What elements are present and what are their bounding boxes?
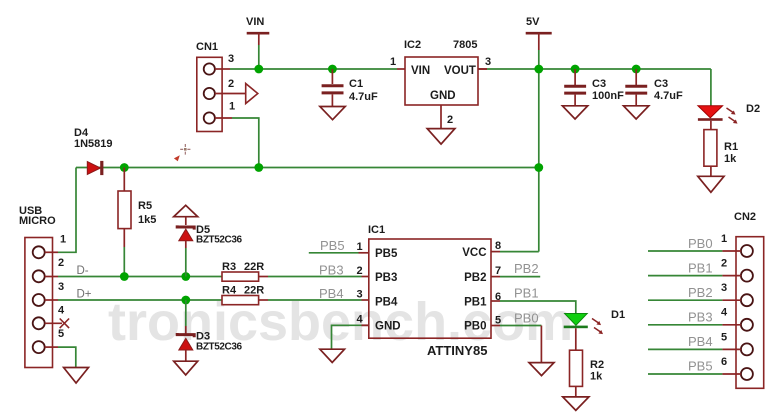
svg-text:1: 1 bbox=[229, 101, 235, 113]
svg-text:PB5: PB5 bbox=[688, 359, 713, 374]
svg-text:PB4: PB4 bbox=[319, 286, 344, 301]
IC1 pin 8 stub VCC bbox=[491, 240, 501, 252]
svg-text:3: 3 bbox=[721, 282, 727, 294]
svg-text:D+: D+ bbox=[77, 289, 92, 301]
node junction D5 on D- bbox=[181, 272, 190, 281]
LED D1 green bbox=[564, 309, 625, 334]
svg-text:5: 5 bbox=[721, 332, 727, 344]
wire PB0 drop to ground bbox=[540, 326, 542, 363]
svg-text:1k5: 1k5 bbox=[138, 214, 156, 226]
wire PB0 net bbox=[500, 325, 541, 327]
svg-text:C3: C3 bbox=[654, 78, 668, 90]
wire PB5 net to IC1 pin1 bbox=[309, 252, 359, 254]
wire CN2 pin3 net PB2 bbox=[648, 299, 741, 301]
svg-text:4.7uF: 4.7uF bbox=[349, 91, 378, 103]
wire CN2 pin2 net PB1 bbox=[648, 275, 741, 277]
svg-text:7805: 7805 bbox=[453, 39, 477, 51]
wire CN2 pin4 net PB3 bbox=[648, 324, 741, 326]
svg-text:PB4: PB4 bbox=[375, 297, 398, 309]
supply symbol VIN bbox=[246, 16, 269, 45]
ground below R2 bbox=[563, 397, 589, 411]
svg-text:3: 3 bbox=[58, 281, 64, 293]
svg-text:PB1: PB1 bbox=[514, 286, 539, 301]
wire USB pin1 VBUS riser bbox=[45, 168, 76, 253]
node junction D4 to R5 bbox=[120, 163, 129, 172]
svg-text:D-: D- bbox=[77, 265, 89, 277]
svg-text:1k: 1k bbox=[724, 153, 737, 165]
connector CN1 bbox=[196, 41, 235, 132]
svg-text:VCC: VCC bbox=[462, 247, 486, 259]
wire R4 to IC1 PB4 bbox=[268, 299, 362, 301]
wire CN2 pin6 net PB5 bbox=[648, 373, 741, 375]
svg-text:MICRO: MICRO bbox=[19, 215, 56, 227]
ground below R1 bbox=[698, 176, 724, 192]
svg-text:PB5: PB5 bbox=[320, 238, 345, 253]
ground below C1 bbox=[320, 107, 345, 120]
svg-text:1: 1 bbox=[390, 56, 396, 68]
IC1 pin 7 stub bbox=[491, 265, 501, 277]
resistor R4 22R bbox=[222, 285, 268, 305]
IC1 pin 5 stub bbox=[491, 315, 501, 327]
wire IC1 GND to ground bbox=[332, 325, 369, 349]
svg-text:1k: 1k bbox=[590, 371, 603, 383]
ground above D5 (pointing up) bbox=[174, 205, 198, 216]
svg-text:6: 6 bbox=[721, 356, 727, 368]
svg-text:VIN: VIN bbox=[411, 65, 430, 77]
wire VCC to 5V rail bbox=[500, 251, 539, 253]
svg-text:C1: C1 bbox=[349, 78, 363, 90]
node junction R5 on D- bbox=[120, 272, 129, 281]
node junction C1 tap bbox=[328, 65, 337, 74]
svg-text:IC1: IC1 bbox=[368, 224, 385, 236]
wire 5V rail to LED D2 bbox=[710, 69, 712, 106]
IC1 pin 3 stub bbox=[357, 289, 369, 301]
svg-text:100nF: 100nF bbox=[592, 90, 624, 102]
resistor R5 bbox=[118, 168, 156, 248]
svg-text:PB0: PB0 bbox=[514, 311, 539, 326]
node junction VBUS meets 5V rail bbox=[534, 163, 543, 172]
zener diode D3 BZT52C36 bbox=[177, 326, 242, 361]
wire CN1 pin3 stub bbox=[215, 68, 230, 70]
svg-text:PB3: PB3 bbox=[375, 272, 397, 284]
svg-text:IC2: IC2 bbox=[404, 39, 421, 51]
svg-text:4.7uF: 4.7uF bbox=[654, 90, 683, 102]
wire D+ net to D3 bbox=[185, 300, 187, 326]
svg-text:PB1: PB1 bbox=[464, 297, 487, 309]
LED D2 red bbox=[698, 103, 760, 124]
svg-text:R1: R1 bbox=[724, 141, 738, 153]
svg-text:PB2: PB2 bbox=[464, 272, 486, 284]
svg-text:5V: 5V bbox=[526, 16, 540, 28]
svg-text:VOUT: VOUT bbox=[444, 65, 476, 77]
CN1 pin2 stub and arrow marker bbox=[215, 84, 258, 104]
svg-text:1: 1 bbox=[357, 241, 363, 253]
svg-text:PB0: PB0 bbox=[688, 236, 713, 251]
wire R3 to IC1 PB3 bbox=[268, 276, 362, 278]
svg-text:ATTINY85: ATTINY85 bbox=[427, 343, 487, 358]
cursor crosshair artifact bbox=[174, 144, 191, 161]
wire USB pin5 to ground bbox=[45, 347, 76, 367]
wire D+ net USB pin3 to R4 bbox=[45, 299, 222, 301]
wire R5 to D- net bbox=[123, 247, 125, 277]
svg-text:C3: C3 bbox=[592, 78, 606, 90]
svg-text:2: 2 bbox=[228, 78, 234, 90]
svg-text:5: 5 bbox=[58, 328, 64, 340]
svg-text:PB4: PB4 bbox=[688, 334, 713, 349]
svg-text:PB1: PB1 bbox=[688, 261, 713, 276]
svg-text:2: 2 bbox=[357, 265, 363, 277]
IC2 pin 2 stub bbox=[441, 105, 453, 129]
IC1 pin 6 stub bbox=[491, 291, 501, 303]
diode D4 1N5819 bbox=[74, 127, 113, 175]
svg-text:CN2: CN2 bbox=[734, 211, 756, 223]
wire PB2 net bbox=[500, 276, 540, 278]
connector J1 USB MICRO bbox=[19, 205, 66, 368]
svg-text:PB3: PB3 bbox=[319, 263, 344, 278]
wire top rail CN1 to IC2 pin1 bbox=[230, 68, 397, 70]
wire 5V vertical rail bbox=[538, 69, 540, 252]
node junction 5V rail top bbox=[534, 65, 543, 74]
ground below PB0 drop bbox=[529, 363, 554, 376]
wire D- net USB pin2 to R3 bbox=[45, 276, 222, 278]
svg-text:R5: R5 bbox=[138, 200, 152, 212]
svg-text:2: 2 bbox=[58, 257, 64, 269]
connector CN2 bbox=[721, 211, 764, 388]
wire D5 to D- net bbox=[185, 248, 187, 277]
svg-text:GND: GND bbox=[430, 90, 456, 102]
node junction C3b tap bbox=[632, 65, 641, 74]
svg-text:2: 2 bbox=[721, 258, 727, 270]
ground below USB pin5 bbox=[64, 368, 89, 384]
ground below C3 100nF bbox=[562, 106, 587, 119]
svg-text:3: 3 bbox=[485, 56, 491, 68]
svg-text:BZT52C36: BZT52C36 bbox=[196, 342, 243, 353]
svg-text:1N5819: 1N5819 bbox=[74, 138, 113, 150]
wire CN1 pin1 to VBUS rail bbox=[215, 118, 259, 168]
svg-text:2: 2 bbox=[447, 114, 453, 126]
svg-text:PB3: PB3 bbox=[688, 310, 713, 325]
svg-text:4: 4 bbox=[58, 305, 65, 317]
IC1 ATTINY85 bbox=[368, 224, 491, 358]
svg-text:7: 7 bbox=[495, 265, 501, 277]
ground below C3 4.7uF bbox=[624, 106, 649, 119]
resistor R1 bbox=[704, 121, 738, 177]
svg-text:BZT52C36: BZT52C36 bbox=[196, 235, 243, 246]
zener diode D5 BZT52C36 bbox=[177, 217, 242, 248]
svg-text:4: 4 bbox=[721, 307, 728, 319]
svg-text:8: 8 bbox=[495, 240, 501, 252]
wire CN2 pin1 net PB0 bbox=[648, 250, 741, 252]
ground below D3 bbox=[174, 361, 198, 375]
resistor R2 bbox=[570, 328, 605, 397]
svg-text:CN1: CN1 bbox=[196, 41, 218, 53]
capacitor C1 bbox=[322, 69, 378, 107]
wire 5V symbol down to rail bbox=[538, 50, 540, 69]
svg-text:PB5: PB5 bbox=[375, 248, 398, 260]
node junction CN1 pin1 drop bbox=[254, 163, 263, 172]
node junction D3 on D+ bbox=[181, 296, 190, 305]
ground below IC2 bbox=[427, 129, 455, 145]
IC2 pin 1 stub bbox=[390, 56, 405, 69]
IC1 pin 4 stub bbox=[357, 314, 369, 326]
svg-text:PB2: PB2 bbox=[688, 285, 713, 300]
svg-text:D1: D1 bbox=[611, 309, 625, 321]
wire VBUS rail from USB pin1 riser to 5V rail bbox=[76, 167, 539, 169]
IC1 pin 1 stub bbox=[357, 241, 369, 253]
node junction VIN rail at CN1 bbox=[254, 65, 263, 74]
IC1 pin 2 stub bbox=[357, 265, 369, 277]
node junction C3a tap bbox=[571, 65, 580, 74]
IC2 pin 3 stub bbox=[478, 56, 491, 69]
wire CN2 pin5 net PB4 bbox=[648, 348, 741, 350]
svg-text:PB2: PB2 bbox=[514, 261, 539, 276]
capacitor C3 100nF bbox=[564, 69, 624, 106]
svg-text:PB0: PB0 bbox=[464, 321, 486, 333]
svg-text:R2: R2 bbox=[590, 359, 604, 371]
wire VIN symbol to top rail bbox=[258, 45, 260, 69]
wire VOUT to 5V rail bbox=[478, 68, 487, 70]
supply symbol 5V bbox=[526, 16, 552, 50]
svg-text:4: 4 bbox=[357, 314, 364, 326]
capacitor C3 4.7uF bbox=[625, 69, 683, 106]
svg-text:1: 1 bbox=[60, 234, 66, 246]
svg-text:1: 1 bbox=[721, 233, 727, 245]
svg-text:VIN: VIN bbox=[246, 16, 264, 28]
IC2 voltage regulator 7805 bbox=[404, 39, 478, 105]
svg-text:GND: GND bbox=[375, 321, 401, 333]
USB pin4 no-connect X bbox=[45, 319, 69, 329]
svg-text:3: 3 bbox=[357, 289, 363, 301]
svg-text:3: 3 bbox=[228, 53, 234, 65]
wire PB1 net to LED D1 bbox=[500, 301, 576, 314]
ground below IC1 GND bbox=[320, 349, 345, 362]
svg-text:D2: D2 bbox=[746, 103, 760, 115]
resistor R3 22R bbox=[222, 261, 268, 281]
